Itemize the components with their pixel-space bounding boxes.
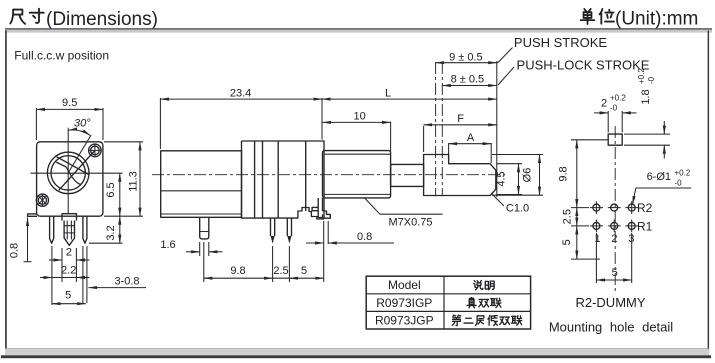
rotor diagonal to screw (59, 150, 95, 190)
PUSH STROKE label (498, 35, 608, 63)
push shaft with flat (424, 155, 496, 196)
dimension 2 (49, 247, 90, 261)
hole R2-1 (590, 201, 603, 214)
dimension 6.5 (105, 173, 120, 216)
right frame line (708, 31, 710, 353)
svg-text:6-Ø1: 6-Ø1 (647, 171, 671, 183)
snap hook bracket (312, 198, 330, 218)
slot dim 1.8 with tolerance (624, 68, 670, 159)
svg-text:2: 2 (66, 247, 72, 259)
housing seam lines (161, 191, 242, 214)
svg-text:3.2: 3.2 (105, 225, 117, 240)
svg-text:1: 1 (594, 233, 600, 245)
hole R1-2 (608, 220, 621, 233)
svg-text:F: F (457, 113, 464, 125)
svg-text:9.8: 9.8 (557, 166, 569, 181)
dimension dia 6 (492, 155, 543, 196)
svg-text:PUSH-LOCK STROKE: PUSH-LOCK STROKE (517, 58, 650, 73)
dimension 2.2 (40, 264, 90, 277)
peg inner line (200, 231, 209, 233)
svg-text:Mounting hole detail: Mounting hole detail (549, 320, 673, 335)
left dim chain 9.8 / 2.5 / 5 (557, 140, 608, 259)
dimension A (449, 132, 492, 163)
svg-text:30°: 30° (74, 118, 91, 130)
center peg body (64, 221, 74, 246)
hole R2-2 (608, 204, 621, 211)
svg-text:R2-DUMMY: R2-DUMMY (575, 295, 645, 310)
dimension 11.3 (104, 142, 143, 216)
dimension L (322, 61, 497, 197)
30 degree pointer line (68, 135, 91, 173)
dimension 0.8 left (9, 218, 32, 262)
PUSH-LOCK STROKE label (498, 58, 650, 86)
svg-text:8 ± 0.5: 8 ± 0.5 (451, 74, 485, 86)
rotor slot chord (57, 157, 90, 175)
svg-text:Full.c.c.w position: Full.c.c.w position (14, 49, 109, 63)
rotor slot arc (66, 167, 81, 185)
svg-text:C1.0: C1.0 (506, 203, 529, 215)
svg-text:2.5: 2.5 (273, 265, 288, 277)
pcb pin 2 (side) (287, 218, 291, 236)
dimension 1.6 (160, 239, 222, 256)
thread minor lines (324, 154, 390, 194)
shaft neck (391, 164, 424, 186)
svg-text:(Unit):mm: (Unit):mm (615, 9, 698, 30)
bottom dim 5 (596, 233, 631, 283)
dimension 4.5 (496, 164, 523, 195)
svg-text:R0973IGP: R0973IGP (376, 296, 432, 310)
pcb pin 1 (side) (271, 218, 275, 236)
screw top-right (88, 144, 101, 157)
hole R2-3 (625, 201, 638, 214)
bottom frame bar (5, 347, 709, 350)
svg-text:R0973JGP: R0973JGP (375, 313, 434, 327)
svg-text:5: 5 (561, 239, 573, 245)
center peg inner lines (64, 221, 74, 240)
top divider band (5, 28, 712, 30)
svg-text:1.6: 1.6 (160, 239, 175, 251)
svg-text:+0.2: +0.2 (610, 94, 626, 103)
rotor outer circle (47, 152, 89, 194)
svg-text:4.5: 4.5 (496, 171, 508, 186)
svg-text:5: 5 (612, 267, 618, 279)
mounting slot (608, 134, 622, 145)
svg-text:L: L (385, 87, 391, 99)
dimension 10 (323, 111, 391, 153)
svg-text:1.8: 1.8 (640, 89, 652, 104)
svg-text:23.4: 23.4 (230, 87, 251, 99)
svg-text:-0: -0 (647, 76, 656, 84)
rotor center horizontal line (31, 172, 123, 174)
dimension 3.2 (89, 216, 123, 243)
wafer internal lines (255, 141, 306, 218)
screw bottom-left (36, 194, 48, 207)
left frame line (5, 31, 7, 349)
svg-text:(Dimensions): (Dimensions) (46, 9, 158, 30)
dimension 23.4 (160, 87, 322, 149)
svg-text:-0: -0 (675, 178, 683, 187)
leader M7X0.75 (365, 198, 443, 228)
svg-text:0.8: 0.8 (9, 243, 21, 258)
svg-text:9.8: 9.8 (230, 265, 245, 277)
svg-text:3-0.8: 3-0.8 (114, 275, 139, 287)
extension lines below pins (52, 246, 87, 305)
main housing (side) (161, 151, 242, 218)
svg-text:9 ± 0.5: 9 ± 0.5 (449, 51, 483, 63)
dimensions 9.8 2.5 5 row (204, 242, 324, 282)
hole R1-1 (590, 220, 603, 233)
axis center line (152, 174, 505, 176)
30 degree angular arc (69, 130, 91, 136)
support peg (side) (200, 217, 209, 239)
svg-text:+0.2: +0.2 (675, 168, 691, 177)
svg-text:5: 5 (301, 265, 307, 277)
title 尺寸(Dimensions) (10, 9, 158, 30)
right pin (terminal) (83, 216, 87, 243)
dimension 9+-0.5 (436, 51, 497, 63)
left mounting tab (28, 214, 37, 216)
slot dim 2 with tolerance (594, 94, 637, 133)
title 单位(Unit):mm (581, 9, 699, 30)
rotor inner circle (51, 156, 85, 190)
svg-text:PUSH STROKE: PUSH STROKE (514, 35, 608, 50)
push stroke dashed reference lines (436, 62, 443, 196)
wafer section outline (242, 141, 325, 219)
dimension 5 (front) (52, 290, 86, 304)
svg-text:2.2: 2.2 (61, 264, 76, 276)
dimension 0.8 (hook) (306, 221, 394, 282)
rotor slot short edge (56, 162, 66, 167)
svg-text:11.3: 11.3 (127, 171, 139, 192)
svg-text:A: A (467, 132, 475, 144)
svg-text:0.8: 0.8 (357, 231, 372, 243)
svg-text:9.5: 9.5 (62, 97, 77, 109)
svg-text:R1: R1 (637, 219, 653, 233)
dimension F (424, 113, 497, 152)
svg-text:2: 2 (601, 98, 607, 110)
label 6-dia1 tolerance (633, 168, 692, 204)
leader C1.0 (491, 193, 529, 214)
detail center line vertical (614, 126, 616, 291)
dimension 9.5 (36, 97, 103, 140)
threaded bushing M7 (323, 151, 391, 198)
svg-text:2.5: 2.5 (561, 209, 573, 224)
svg-text:+0.2: +0.2 (637, 68, 646, 84)
svg-text:M7X0.75: M7X0.75 (388, 216, 432, 228)
left pin (terminal) (50, 216, 54, 243)
leader 3-0.8 (89, 275, 147, 287)
svg-text:Model: Model (388, 278, 421, 292)
hole R1-3 (625, 220, 638, 233)
svg-text:5: 5 (65, 290, 71, 302)
svg-text:-0: -0 (610, 104, 618, 113)
svg-text:10: 10 (353, 111, 365, 123)
svg-text:Ø6: Ø6 (522, 168, 534, 183)
svg-text:R2: R2 (637, 201, 653, 215)
dimension 8+-0.5 (442, 74, 497, 86)
svg-text:6.5: 6.5 (105, 182, 117, 197)
svg-text:2: 2 (611, 233, 617, 245)
rotor center vertical line (67, 128, 69, 213)
center peg collar (62, 214, 77, 221)
body of potentiometer (front) (37, 142, 103, 216)
